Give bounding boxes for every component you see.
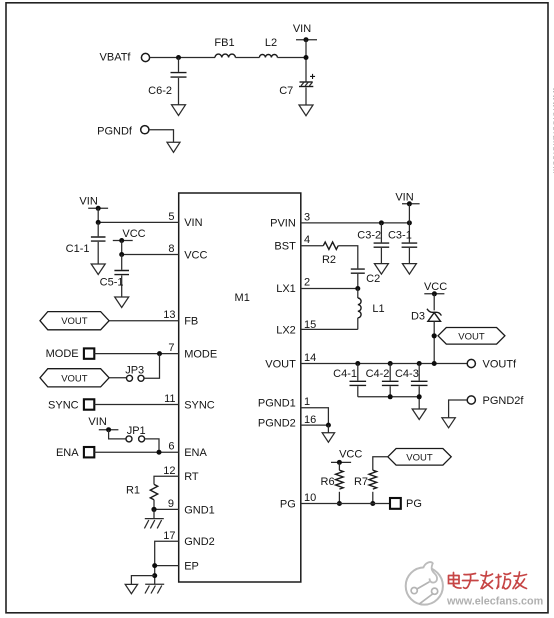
svg-text:L2: L2 — [265, 37, 277, 49]
svg-text:PG: PG — [406, 498, 422, 510]
wire LX2 — [301, 328, 358, 330]
svg-text:R7: R7 — [354, 476, 368, 488]
resistor R6 — [336, 470, 344, 489]
wire FB — [109, 320, 179, 322]
wire VIN to JP1 — [109, 430, 126, 439]
svg-text:LX2: LX2 — [276, 324, 296, 336]
wire ENA to pin6 — [94, 451, 178, 453]
svg-text:VIN: VIN — [293, 23, 311, 35]
wire RT — [154, 476, 179, 484]
capacitor C3-1 — [402, 223, 418, 264]
svg-text:L1: L1 — [372, 303, 384, 315]
svg-text:ENA: ENA — [184, 447, 207, 459]
terminal MODE — [84, 348, 94, 358]
wire VCC to pin8 — [122, 241, 179, 255]
IC M1 body — [179, 193, 301, 582]
node junction C6-2 — [176, 55, 181, 60]
ground C4 — [412, 409, 426, 420]
ground C3-1 — [402, 264, 416, 275]
svg-text:SYNC: SYNC — [184, 399, 215, 411]
svg-text:PGND1: PGND1 — [258, 398, 296, 410]
capacitor C3-2 — [374, 223, 390, 264]
svg-text:MODE: MODE — [46, 348, 79, 360]
ground C6-2 — [172, 105, 186, 116]
svg-text:D3: D3 — [411, 311, 425, 323]
svg-text:1: 1 — [304, 396, 310, 408]
svg-text:R2: R2 — [322, 254, 336, 266]
wire L1 to LX2 — [357, 318, 359, 330]
svg-text:3: 3 — [304, 211, 310, 223]
svg-text:EP: EP — [184, 561, 199, 573]
svg-text:C7: C7 — [279, 85, 293, 97]
svg-text:VOUT: VOUT — [406, 452, 433, 463]
svg-text:2: 2 — [304, 277, 310, 289]
svg-text:ENA: ENA — [56, 447, 79, 459]
net flag VOUT (FB) — [40, 312, 109, 330]
ferrite bead FB1 — [215, 54, 235, 57]
wire GND2 — [155, 541, 179, 584]
ground C5-1 — [115, 297, 129, 308]
wire JP3 to MODE node — [144, 354, 160, 379]
svg-text:VIN: VIN — [395, 191, 413, 203]
watermark red brand text — [449, 572, 527, 589]
svg-text:VCC: VCC — [184, 249, 207, 261]
net flag VOUT (JP3) — [40, 369, 109, 387]
wire C4 common — [358, 397, 419, 409]
wire PVIN — [301, 222, 410, 224]
svg-text:PVIN: PVIN — [270, 218, 296, 230]
svg-text:SYNC: SYNC — [48, 399, 79, 411]
svg-text:16: 16 — [304, 414, 316, 426]
wire flag to R7 — [373, 457, 388, 470]
svg-text:VOUT: VOUT — [61, 316, 88, 327]
svg-text:R1: R1 — [126, 484, 140, 496]
jumper JP1 pin a — [126, 436, 132, 442]
terminal PGND2f — [467, 396, 475, 404]
svg-text:GND1: GND1 — [184, 504, 215, 516]
terminal ENA — [84, 447, 94, 457]
wire R2 to C2 — [338, 246, 358, 269]
net flag VOUT (D3) — [438, 328, 505, 345]
svg-text:GND2: GND2 — [184, 536, 215, 548]
svg-text:VIN: VIN — [88, 416, 106, 428]
svg-text:8: 8 — [168, 243, 174, 255]
wire PGND2 — [301, 424, 329, 426]
svg-text:C3-1: C3-1 — [388, 229, 412, 241]
inductor L2 — [259, 55, 277, 58]
svg-text:C4-3: C4-3 — [395, 368, 419, 380]
wire SYNC to pin11 — [94, 404, 178, 406]
svg-text:VOUT: VOUT — [61, 373, 88, 384]
ground C3-2 — [374, 264, 388, 275]
svg-text:PGNDf: PGNDf — [97, 126, 133, 138]
wire L2 to VIN node — [277, 57, 306, 59]
svg-text:11: 11 — [164, 393, 175, 405]
svg-text:VOUTf: VOUTf — [483, 358, 518, 370]
svg-text:VBATf: VBATf — [100, 51, 132, 63]
signal ground EP — [145, 584, 164, 593]
terminal SYNC — [84, 399, 94, 409]
wire LX1 — [301, 288, 358, 290]
wire PG — [301, 503, 390, 505]
svg-text:C2: C2 — [366, 273, 380, 285]
resistor R2 — [323, 242, 338, 249]
wire D3 to VOUT node — [433, 321, 435, 363]
wire VIN stub down — [305, 40, 307, 82]
ground EP (triangle) — [125, 584, 137, 593]
svg-text:LX1: LX1 — [276, 283, 296, 295]
wire JP1 to ENA node — [145, 439, 159, 452]
wire R1 to GND1 — [154, 500, 179, 510]
terminal VBATf — [141, 53, 149, 61]
terminal PGNDf — [141, 126, 149, 134]
capacitor C4-1 — [350, 364, 367, 397]
ground C7 — [299, 105, 313, 116]
capacitor C5-1 — [114, 255, 129, 298]
jumper JP3 pin b — [138, 375, 144, 381]
svg-text:PGND2f: PGND2f — [483, 395, 525, 407]
wire VCC to D3 — [433, 294, 435, 311]
svg-text:9: 9 — [168, 498, 174, 510]
wire flag to JP3 — [109, 377, 126, 379]
svg-text:C1-1: C1-1 — [66, 243, 90, 255]
svg-text:PG: PG — [280, 498, 296, 510]
inductor L1 — [357, 289, 359, 299]
svg-text:5: 5 — [168, 211, 174, 223]
svg-text:www.elecfans.com: www.elecfans.com — [446, 596, 543, 608]
wire R6 to PG — [338, 492, 340, 504]
capacitor C7 (polarized) — [299, 72, 316, 105]
wire PGNDf — [149, 130, 174, 143]
wire EP — [155, 565, 179, 567]
svg-text:VCC: VCC — [424, 281, 447, 293]
resistor R7 — [369, 470, 377, 489]
svg-text:13: 13 — [163, 309, 175, 321]
ground C1-1 — [91, 264, 105, 275]
svg-text:C3-2: C3-2 — [357, 229, 381, 241]
svg-text:14: 14 — [304, 352, 316, 364]
wire VBATf to FB1 — [150, 57, 215, 59]
ground PGNDf — [167, 142, 180, 152]
signal ground GND1 — [144, 509, 163, 528]
svg-text:FB1: FB1 — [214, 37, 234, 49]
wire VIN to pin5 — [98, 208, 179, 222]
svg-text:VOUT: VOUT — [458, 331, 485, 342]
svg-text:MODE: MODE — [184, 348, 217, 360]
jumper JP3 pin a — [127, 375, 133, 381]
wire PGND2f — [449, 400, 468, 418]
watermark logo — [406, 562, 443, 604]
wire BST — [301, 245, 324, 247]
svg-text:4: 4 — [304, 234, 310, 246]
svg-text:VCC: VCC — [122, 228, 145, 240]
svg-text:VOUT: VOUT — [265, 358, 296, 370]
svg-text:10: 10 — [304, 492, 316, 504]
wire PGND1 — [301, 408, 329, 425]
svg-text:6: 6 — [168, 441, 174, 453]
diode D3 (zener) — [427, 309, 441, 322]
svg-text:VIN: VIN — [184, 217, 202, 229]
capacitor C1-1 — [91, 222, 106, 264]
svg-text:JP3: JP3 — [125, 364, 144, 376]
capacitor C4-2 — [382, 364, 399, 397]
resistor R1 — [150, 484, 157, 499]
svg-text:C4-2: C4-2 — [366, 368, 390, 380]
svg-text:C6-2: C6-2 — [148, 85, 172, 97]
wire VOUT pin14 — [301, 363, 467, 365]
svg-text:17: 17 — [163, 530, 175, 542]
svg-text:M1: M1 — [235, 292, 250, 304]
svg-text:VIN: VIN — [79, 195, 97, 207]
svg-text:C5-1: C5-1 — [100, 277, 124, 289]
net flag VOUT (R7) — [388, 449, 451, 466]
svg-text:RT: RT — [184, 471, 199, 483]
ground PGND — [327, 425, 329, 433]
svg-text:R6: R6 — [321, 476, 335, 488]
wire VCC to R6 — [338, 462, 340, 470]
svg-text:VCC: VCC — [339, 449, 362, 461]
svg-text:C4-1: C4-1 — [333, 368, 357, 380]
svg-text:12: 12 — [163, 465, 175, 477]
svg-text:PGND2: PGND2 — [258, 417, 296, 429]
wire to left ground — [131, 576, 154, 585]
terminal PG — [390, 498, 401, 509]
terminal VOUTf — [467, 359, 475, 367]
ground PGND2f — [442, 418, 455, 428]
capacitor C4-3 — [411, 364, 428, 397]
svg-text:FB: FB — [184, 316, 198, 328]
svg-text:7: 7 — [168, 342, 174, 354]
svg-text:BST: BST — [274, 241, 296, 253]
capacitor C2 — [351, 269, 365, 288]
node EP ground — [152, 573, 157, 578]
jumper JP1 pin b — [139, 436, 145, 442]
capacitor C6-2 — [171, 58, 187, 105]
wire R7 to PG — [372, 492, 374, 504]
wire MODE to pin7 — [94, 353, 178, 355]
wire FB1 to L2 — [235, 57, 259, 59]
